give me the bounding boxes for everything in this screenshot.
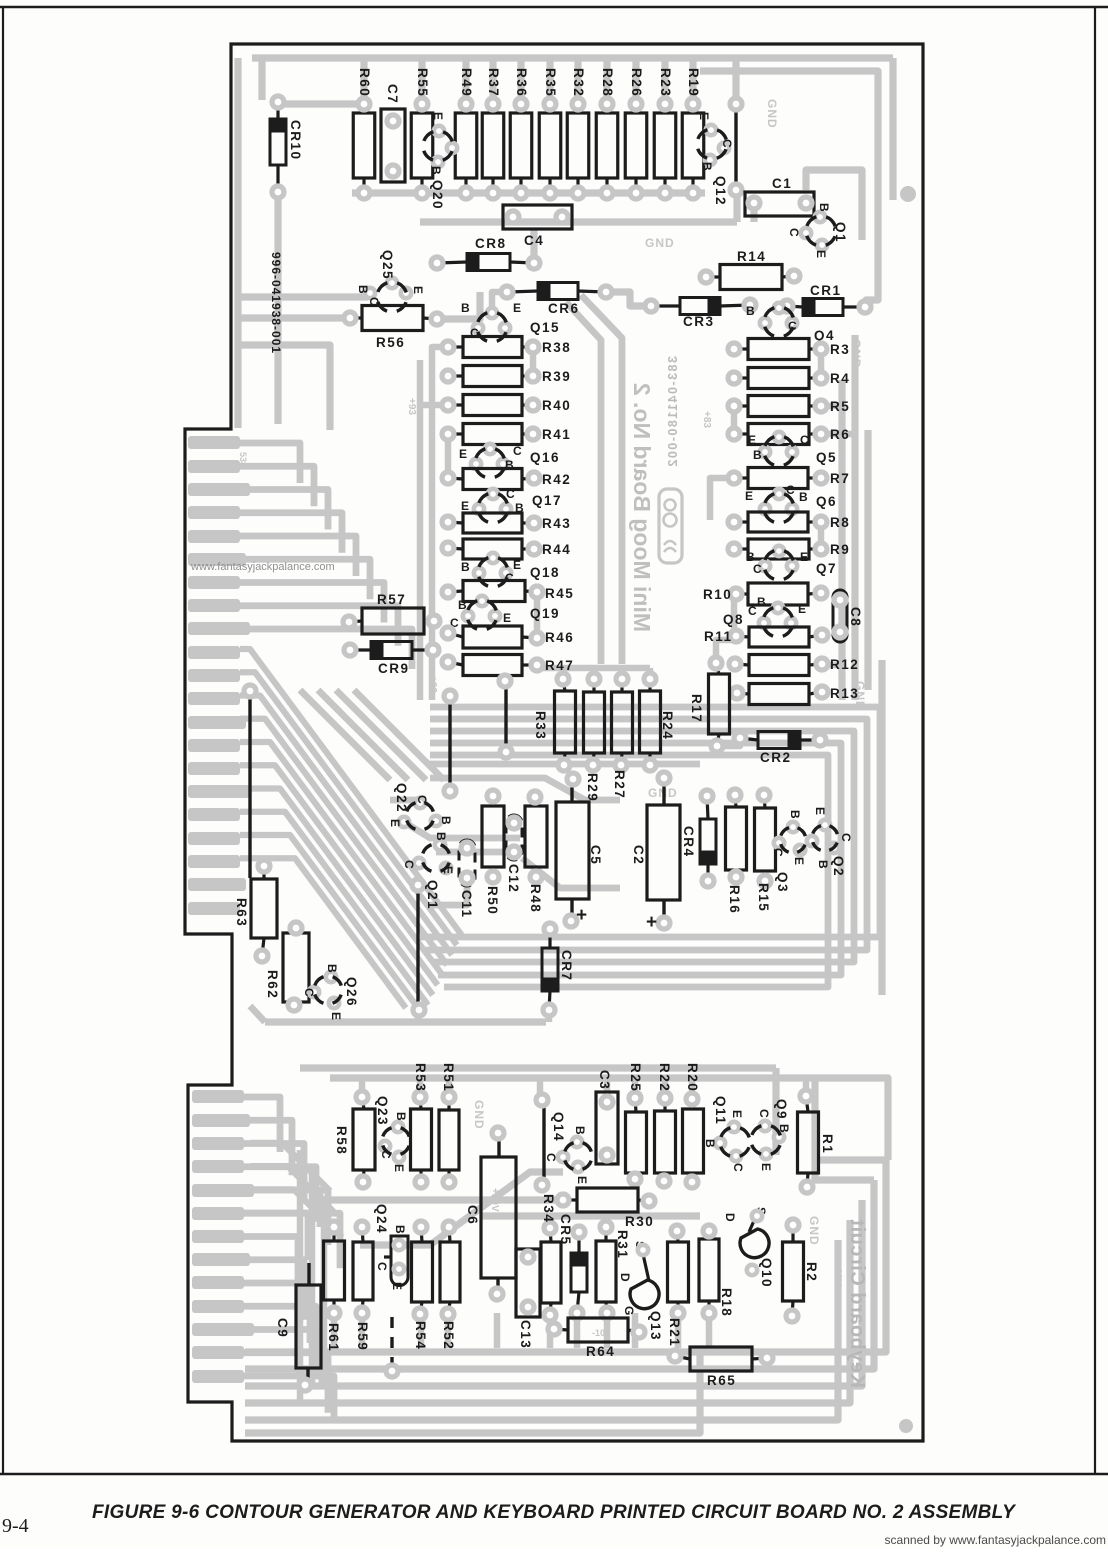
transistor Q4 — [746, 301, 835, 343]
resistor R15 — [755, 789, 776, 912]
svg-text:R61: R61 — [326, 1323, 341, 1352]
svg-text:R21: R21 — [667, 1318, 682, 1347]
svg-text:R17: R17 — [689, 694, 704, 723]
resistor R1 — [798, 1090, 836, 1193]
transistor Q24 — [374, 1204, 408, 1290]
svg-text:R36: R36 — [514, 68, 529, 97]
resistor R22 — [655, 1063, 676, 1187]
svg-text:C: C — [800, 433, 809, 447]
resistor R16 — [726, 789, 747, 914]
svg-text:R31: R31 — [615, 1230, 630, 1259]
diode CR4 — [681, 790, 716, 887]
svg-text:Q17: Q17 — [532, 493, 562, 508]
svg-text:E: E — [697, 112, 711, 120]
svg-text:538: 538 — [238, 452, 248, 467]
svg-text:Keyboard Circuit: Keyboard Circuit — [846, 1219, 868, 1388]
svg-text:CR5: CR5 — [558, 1214, 573, 1246]
svg-text:B: B — [817, 203, 831, 212]
svg-text:B: B — [703, 1139, 717, 1148]
label Keyboard Circuit (mirrored) — [846, 1219, 868, 1388]
svg-text:C: C — [748, 604, 757, 618]
diode CR6 — [501, 283, 612, 317]
svg-text:Q16: Q16 — [530, 450, 560, 465]
resistor R49 — [455, 68, 477, 199]
transistor Q17 — [461, 487, 562, 529]
resistor R38 — [442, 337, 571, 358]
resistor R21 — [667, 1225, 689, 1347]
resistor R7 — [728, 468, 850, 489]
svg-text:E: E — [411, 286, 425, 294]
svg-text:Q20: Q20 — [430, 180, 445, 210]
svg-text:R57: R57 — [377, 592, 406, 607]
svg-text:R49: R49 — [459, 68, 474, 97]
resistor R30 — [557, 1188, 655, 1229]
svg-text:C: C — [506, 487, 515, 501]
svg-text:C: C — [302, 988, 316, 997]
capacitor C11 — [459, 840, 475, 919]
svg-text:GND: GND — [765, 99, 779, 129]
board outline — [185, 44, 923, 1441]
svg-text:R14: R14 — [737, 249, 766, 264]
svg-text:9-4: 9-4 — [2, 1515, 29, 1537]
svg-text:R23: R23 — [658, 68, 673, 97]
diode CR8 — [431, 236, 540, 271]
resistor R40 — [442, 395, 571, 416]
resistor R43 — [442, 513, 571, 533]
resistor R32 — [567, 68, 589, 199]
resistor R10 — [703, 583, 827, 605]
resistor R34 — [541, 1194, 561, 1321]
svg-text:R10: R10 — [703, 587, 732, 602]
svg-text:+93: +93 — [406, 398, 417, 415]
transistor Q15 — [461, 301, 560, 348]
svg-text:C: C — [513, 444, 522, 458]
svg-text:Q4: Q4 — [814, 328, 835, 343]
resistor R4 — [728, 368, 850, 389]
resistor R31 — [596, 1221, 630, 1319]
svg-text:B: B — [356, 285, 370, 294]
svg-text:B: B — [439, 816, 453, 825]
wire jumper left of Q14 — [536, 1094, 548, 1191]
label watermark www.fantasyjackpalance.com — [190, 561, 335, 573]
capacitor C8 — [833, 590, 863, 642]
resistor R51 — [439, 1063, 459, 1188]
svg-text:B: B — [777, 1124, 791, 1133]
resistor R42 — [442, 469, 571, 490]
svg-text:R5: R5 — [830, 399, 850, 414]
resistor R50 — [482, 790, 504, 915]
resistor R23 — [654, 68, 676, 199]
svg-text:E: E — [575, 1176, 589, 1184]
svg-text:R53: R53 — [413, 1063, 428, 1092]
transistor Q9 — [745, 1099, 791, 1171]
diode CR2 — [734, 732, 826, 766]
svg-text:G: G — [622, 1306, 636, 1315]
resistor R65 — [669, 1347, 773, 1388]
svg-text:E: E — [513, 301, 521, 315]
svg-text:R19: R19 — [686, 68, 701, 97]
svg-text:C12: C12 — [506, 864, 521, 893]
resistor R25 — [626, 1063, 647, 1185]
label page number 9-4 — [2, 1515, 29, 1537]
svg-text:Q15: Q15 — [530, 320, 560, 335]
svg-text:R65: R65 — [707, 1373, 736, 1388]
label Mini Moog Board No. 2 (mirrored) — [629, 383, 655, 632]
resistor R62 — [265, 922, 309, 1011]
svg-text:996-041938-001: 996-041938-001 — [269, 252, 283, 354]
resistor R63 — [234, 860, 277, 962]
resistor R29 — [584, 673, 605, 802]
resistor R20 — [683, 1063, 704, 1188]
svg-text:R63: R63 — [234, 898, 249, 927]
diode CR3 — [645, 298, 756, 330]
svg-text:+10V: +10V — [489, 1188, 500, 1212]
svg-text:R27: R27 — [612, 770, 627, 799]
resistor R47 — [442, 655, 574, 676]
resistor R59 — [353, 1221, 373, 1351]
resistor R5 — [728, 396, 850, 417]
svg-text:C: C — [731, 1163, 745, 1172]
svg-text:C: C — [544, 1153, 558, 1162]
svg-text:Q25: Q25 — [380, 250, 395, 280]
svg-text:E: E — [441, 866, 455, 874]
svg-text:R50: R50 — [485, 886, 500, 915]
svg-text:R32: R32 — [571, 68, 586, 97]
svg-text:Q2: Q2 — [831, 856, 846, 877]
svg-text:E: E — [390, 1282, 404, 1290]
logo moog (mirrored) — [659, 489, 682, 563]
diode CR9 — [344, 642, 439, 677]
svg-text:C13: C13 — [518, 1320, 533, 1349]
resistor R3 — [728, 339, 850, 360]
svg-text:www.fantasyjackpalance.com: www.fantasyjackpalance.com — [190, 561, 335, 573]
resistor R11 — [704, 627, 828, 647]
svg-text:R26: R26 — [629, 68, 644, 97]
transistor Q14 — [544, 1112, 598, 1184]
svg-text:R29: R29 — [585, 773, 600, 802]
svg-text:B: B — [325, 964, 339, 973]
svg-text:R9: R9 — [830, 542, 850, 557]
svg-text:R34: R34 — [541, 1194, 556, 1223]
svg-text:CR10: CR10 — [288, 120, 303, 161]
svg-text:Q13: Q13 — [648, 1311, 663, 1341]
resistor R27 — [612, 673, 633, 799]
resistor R26 — [625, 68, 647, 199]
resistor R17 — [689, 657, 730, 752]
transistor Q22 — [388, 783, 453, 836]
transistor Q10 (FET) — [723, 1207, 774, 1288]
capacitor C1 — [745, 176, 814, 216]
svg-text:B: B — [394, 1112, 408, 1121]
svg-text:R13: R13 — [830, 686, 859, 701]
connector J2 edge fingers (lower) — [192, 1090, 254, 1383]
svg-text:R38: R38 — [542, 340, 571, 355]
svg-text:R45: R45 — [545, 586, 574, 601]
svg-text:B: B — [393, 1225, 407, 1234]
svg-text:B: B — [753, 448, 762, 462]
wire jumper to R63 — [244, 685, 256, 878]
svg-text:R11: R11 — [704, 629, 733, 644]
svg-text:E: E — [503, 611, 511, 625]
svg-text:E: E — [798, 602, 806, 616]
transistor Q19 — [450, 594, 560, 636]
svg-text:B: B — [788, 810, 802, 819]
svg-text:Q14: Q14 — [551, 1112, 566, 1142]
svg-text:Q6: Q6 — [816, 494, 837, 509]
svg-text:scanned by www.fantasyjackpala: scanned by www.fantasyjackpalance.com — [885, 1533, 1106, 1547]
capacitor C12 — [506, 815, 522, 893]
resistor R33 — [533, 673, 576, 771]
svg-text:R54: R54 — [413, 1321, 428, 1350]
svg-text:R4: R4 — [830, 371, 850, 386]
svg-text:C2: C2 — [631, 845, 646, 865]
svg-text:R52: R52 — [441, 1321, 456, 1350]
svg-text:R39: R39 — [542, 369, 571, 384]
svg-text:CR7: CR7 — [559, 950, 574, 982]
svg-text:R42: R42 — [542, 472, 571, 487]
svg-text:C: C — [753, 562, 762, 576]
svg-text:Q12: Q12 — [713, 176, 728, 206]
svg-text:C6: C6 — [465, 1205, 480, 1225]
svg-text:C7: C7 — [385, 84, 400, 104]
wire jumper below R47 — [499, 675, 512, 758]
label +63 (trace) — [427, 676, 438, 693]
svg-text:R41: R41 — [542, 427, 571, 442]
svg-text:C: C — [415, 795, 429, 804]
resistor R28 — [596, 68, 618, 199]
svg-text:B: B — [816, 860, 830, 869]
svg-text:CR9: CR9 — [378, 661, 410, 676]
svg-text:E: E — [461, 499, 469, 513]
svg-text:R12: R12 — [830, 657, 859, 672]
svg-text:B: B — [434, 832, 448, 841]
resistor R61 — [324, 1221, 345, 1352]
svg-text:R7: R7 — [830, 471, 850, 486]
capacitor C7 — [381, 84, 405, 182]
resistor R2 — [783, 1219, 820, 1322]
resistor R9 — [728, 539, 850, 559]
svg-text:GND: GND — [849, 339, 863, 369]
diode CR7 — [542, 923, 574, 1016]
svg-text:R20: R20 — [685, 1063, 700, 1092]
svg-text:R24: R24 — [660, 711, 675, 740]
svg-text:R40: R40 — [542, 398, 571, 413]
resistor R8 — [728, 512, 850, 532]
transistor Q23 — [375, 1096, 416, 1172]
resistor R36 — [510, 68, 532, 199]
transistor Q11 — [703, 1096, 756, 1172]
capacitor C5 — [556, 773, 603, 927]
svg-text:R58: R58 — [334, 1126, 349, 1155]
capacitor C6 — [465, 1127, 516, 1300]
svg-text:CR4: CR4 — [681, 826, 696, 858]
resistor R35 — [539, 68, 561, 199]
svg-text:E: E — [431, 112, 445, 120]
transistor Q12 — [691, 112, 734, 206]
svg-text:Q22: Q22 — [394, 783, 409, 813]
svg-text:B: B — [757, 595, 766, 609]
svg-text:+: + — [646, 912, 657, 933]
svg-text:E: E — [759, 1163, 773, 1171]
svg-text:B: B — [461, 301, 470, 315]
svg-text:B: B — [799, 490, 808, 504]
svg-text:E: E — [392, 1164, 406, 1172]
transistor Q5 — [748, 430, 837, 472]
connector J1 edge fingers (upper) — [188, 436, 250, 915]
svg-text:E: E — [800, 550, 808, 564]
svg-text:R62: R62 — [265, 970, 280, 999]
svg-text:R15: R15 — [756, 883, 771, 912]
resistor R54 — [412, 1221, 433, 1350]
transistor Q7 — [746, 544, 837, 586]
svg-text:D: D — [618, 1273, 632, 1282]
resistor R44 — [442, 539, 571, 559]
svg-text:C1: C1 — [772, 176, 792, 191]
svg-text:B: B — [461, 560, 470, 574]
svg-text:C: C — [720, 139, 734, 148]
wire dashed jumper below Q24 — [386, 1317, 398, 1377]
svg-text:E: E — [748, 433, 756, 447]
svg-text:R43: R43 — [542, 516, 571, 531]
mounting hole top-right — [900, 186, 916, 202]
svg-text:R47: R47 — [545, 658, 574, 673]
label GND (right mid, mirrored) — [853, 681, 867, 711]
capacitor C2 — [631, 772, 680, 933]
svg-text:E: E — [730, 1110, 744, 1118]
capacitor C9 — [275, 1263, 321, 1391]
svg-text:Q9: Q9 — [774, 1099, 789, 1120]
svg-text:C: C — [375, 1262, 389, 1271]
svg-text:383-041180-002: 383-041180-002 — [666, 356, 680, 468]
resistor R37 — [482, 68, 504, 199]
wire jumper near Q12 — [730, 98, 742, 196]
label GND (top right, mirrored trace text) — [765, 99, 779, 129]
svg-text:Mini Moog Board No. 2: Mini Moog Board No. 2 — [629, 383, 655, 632]
resistor R58 — [334, 1091, 375, 1188]
resistor R45 — [442, 581, 574, 602]
label scan credit — [885, 1533, 1106, 1547]
resistor R55 — [411, 68, 433, 199]
svg-text:Q26: Q26 — [344, 977, 359, 1007]
svg-text:R44: R44 — [542, 542, 571, 557]
svg-text:C4: C4 — [524, 233, 544, 248]
svg-text:CR2: CR2 — [760, 750, 792, 765]
svg-text:+: + — [576, 905, 587, 926]
svg-text:E: E — [792, 857, 806, 865]
svg-text:Q5: Q5 — [816, 450, 837, 465]
label GND (lower section) — [472, 1100, 486, 1130]
svg-text:R3: R3 — [830, 342, 850, 357]
wire copper traces — [238, 58, 893, 1433]
svg-text:R64: R64 — [586, 1344, 615, 1359]
svg-text:GND: GND — [472, 1100, 486, 1130]
svg-text:R35: R35 — [543, 68, 558, 97]
svg-text:B: B — [429, 166, 443, 175]
transistor Q13 (FET) — [618, 1241, 663, 1341]
svg-text:E: E — [388, 819, 402, 827]
svg-text:Q18: Q18 — [530, 565, 560, 580]
transistor Q1 — [787, 203, 848, 258]
svg-text:C: C — [771, 848, 785, 857]
svg-text:R22: R22 — [657, 1063, 672, 1092]
resistor R56 — [344, 306, 443, 351]
svg-text:FIGURE 9-6 CONTOUR GENERATOR A: FIGURE 9-6 CONTOUR GENERATOR AND KEYBOAR… — [92, 1502, 1017, 1523]
svg-text:Q19: Q19 — [530, 606, 560, 621]
svg-text:C: C — [379, 1150, 393, 1159]
resistor R57 — [343, 592, 440, 634]
svg-text:R28: R28 — [600, 68, 615, 97]
label 538 (trace) — [238, 452, 248, 467]
svg-text:E: E — [329, 1012, 343, 1020]
transistor Q25 — [356, 250, 425, 318]
label figure caption — [92, 1502, 1017, 1523]
wire jumper left-center — [444, 690, 456, 797]
capacitor C13 — [516, 1249, 540, 1349]
diode CR1 — [781, 283, 871, 316]
diode CR10 — [270, 96, 303, 198]
svg-text:GND: GND — [807, 1216, 821, 1246]
svg-text:E: E — [513, 558, 521, 572]
svg-text:C: C — [787, 228, 801, 237]
svg-text:R8: R8 — [830, 515, 850, 530]
svg-text:CR8: CR8 — [475, 236, 507, 251]
svg-text:R2: R2 — [804, 1262, 819, 1282]
resistor R12 — [729, 655, 859, 676]
label GND (near C1) — [645, 236, 675, 250]
svg-text:R60: R60 — [357, 68, 372, 97]
transistor Q2 — [807, 807, 853, 877]
svg-text:E: E — [814, 250, 828, 258]
transistor Q16 — [459, 442, 560, 484]
svg-text:E: E — [459, 447, 467, 461]
resistor R53 — [411, 1063, 432, 1188]
label GND (right of R5) — [849, 339, 863, 369]
wire jumper center-low — [412, 879, 425, 1016]
svg-text:D: D — [723, 1213, 737, 1222]
svg-text:C: C — [788, 319, 797, 333]
resistor R19 — [682, 68, 704, 199]
label GND (center low) — [648, 786, 678, 800]
label 996-041938-001 (serial) — [269, 252, 283, 354]
label GND (near R2) — [807, 1216, 821, 1246]
capacitor C3 — [596, 1070, 618, 1164]
svg-text:B: B — [573, 1126, 587, 1135]
capacitor C4 — [503, 205, 572, 248]
resistor R64 — [548, 1318, 645, 1359]
svg-text:R25: R25 — [628, 1063, 643, 1092]
svg-text:Q3: Q3 — [775, 872, 790, 893]
resistor R13 — [731, 684, 859, 705]
svg-text:CR6: CR6 — [548, 301, 580, 316]
svg-text:B: B — [700, 162, 714, 171]
svg-text:C: C — [757, 1109, 771, 1118]
mounting hole bottom-right — [899, 1419, 913, 1433]
resistor R18 — [699, 1225, 734, 1319]
svg-text:Q24: Q24 — [374, 1204, 389, 1234]
label +93 (trace) — [406, 398, 417, 415]
diode CR5 — [558, 1214, 587, 1319]
resistor R52 — [440, 1221, 460, 1350]
resistor R60 — [353, 68, 375, 199]
svg-text:C8: C8 — [848, 607, 863, 627]
label +83 (trace) — [701, 411, 712, 428]
svg-text:Q7: Q7 — [816, 561, 837, 576]
svg-text:Q11: Q11 — [713, 1096, 728, 1125]
svg-text:C9: C9 — [275, 1318, 290, 1338]
svg-text:C: C — [786, 483, 795, 497]
svg-text:R16: R16 — [727, 885, 742, 914]
svg-text:+10V: +10V — [832, 1262, 843, 1286]
